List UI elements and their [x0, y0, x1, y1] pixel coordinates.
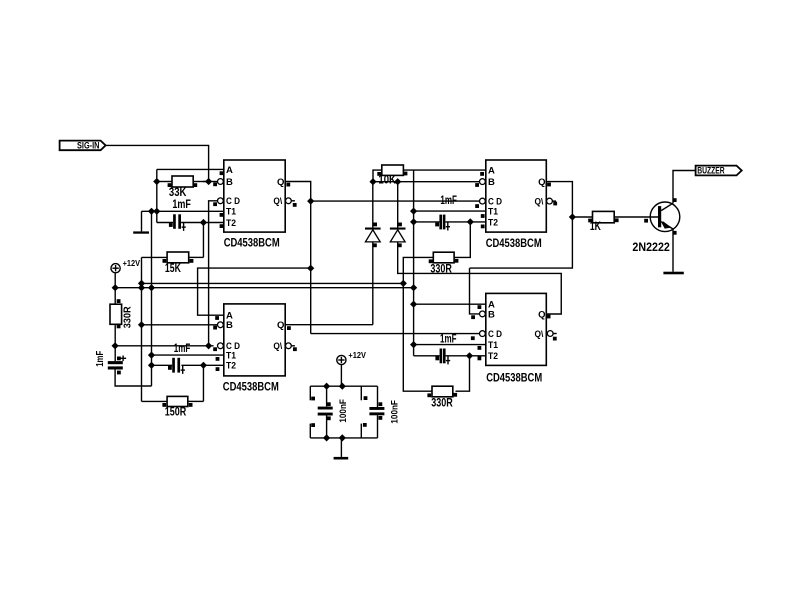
wire U2 Q down-around	[470, 182, 573, 269]
wire U2 A net	[403, 169, 485, 171]
svg-text:Q\: Q\	[535, 197, 544, 208]
wire 150R left lead	[142, 400, 168, 402]
junction SIG-IN/B/33K	[205, 178, 212, 185]
junction U3 B	[138, 321, 145, 328]
junction U3 T1	[148, 352, 155, 359]
junction H2 at +12V	[112, 284, 119, 291]
wire U1 B stub	[203, 181, 218, 183]
svg-text:Q: Q	[538, 177, 545, 188]
resistor R 33K	[168, 176, 198, 187]
wire D1 top lead	[372, 182, 374, 228]
junction CD riser at U3	[205, 342, 212, 349]
capacitor C2 1mF vertical	[108, 356, 126, 375]
capacitor C6 100nF	[318, 386, 333, 438]
wire 330R-left lower lead	[114, 324, 116, 361]
pin bubble U2 B	[480, 179, 486, 185]
op IC U2 CD4538BCM box	[486, 160, 547, 232]
wire U1Q to U2 CD	[311, 200, 483, 202]
svg-text:330R: 330R	[122, 306, 134, 328]
wire U1 A	[157, 168, 224, 170]
svg-text:T2: T2	[226, 361, 236, 372]
wire 1K to base	[614, 216, 658, 218]
wire U1 T2	[157, 222, 224, 224]
wire 150R riser	[202, 365, 204, 401]
power +12V mid	[337, 350, 366, 365]
wire 150R right lead	[188, 400, 204, 402]
label 330R top-right	[430, 263, 452, 275]
label 2N2222	[632, 242, 670, 254]
wire 15K riser	[202, 223, 204, 258]
wire U2 T1	[414, 210, 486, 212]
label 150R	[165, 407, 187, 419]
svg-text:B: B	[488, 177, 495, 188]
wire U1 T1	[142, 210, 224, 212]
wire H2	[115, 287, 413, 289]
junction T1 a	[148, 208, 155, 215]
pin bubble U2 CD	[480, 198, 486, 204]
wire V151 vertical	[151, 211, 153, 386]
junction U3 T2 a	[148, 362, 155, 369]
pin bubble U3 CD	[218, 343, 224, 349]
wire SIG-IN to node	[106, 145, 209, 181]
label C7 100nF	[390, 400, 401, 424]
pin bubble U3 Q\	[286, 343, 295, 349]
wire U3 B	[142, 324, 218, 326]
junction Q1/CD2	[307, 198, 314, 205]
wire U1 CD stub and riser	[209, 201, 218, 346]
label U4 CD4538BCM	[486, 372, 542, 384]
junction rail top C6	[323, 383, 330, 390]
svg-text:+12V: +12V	[348, 350, 366, 360]
diode D2	[390, 223, 406, 248]
label C5 1mF	[440, 333, 457, 345]
wire U4 A	[414, 303, 486, 305]
junction 33K left	[153, 178, 160, 185]
resistor R3 1K	[588, 211, 618, 222]
svg-text:1mF: 1mF	[440, 195, 457, 207]
svg-text:Q: Q	[277, 177, 284, 188]
wire 330R-tr left lead and Va	[403, 257, 433, 391]
pin bubble U4 Q\	[547, 331, 556, 337]
label C6 100nF	[338, 399, 349, 423]
svg-text:Q\: Q\	[273, 341, 282, 352]
resistor R 10K	[377, 165, 407, 176]
ground mid	[334, 457, 349, 460]
label 330R bottom-right	[431, 397, 453, 409]
label C3 1mF	[174, 343, 191, 355]
op IC U4 CD4538BCM box	[486, 293, 547, 365]
junction H2 b	[138, 284, 145, 291]
svg-text:BUZZER: BUZZER	[697, 166, 725, 177]
power +12V left	[111, 258, 140, 273]
pin bubble U1 CD	[218, 198, 224, 204]
junction H2 right	[410, 284, 417, 291]
svg-text:330R: 330R	[430, 263, 452, 275]
capacitor C4 1mF plates	[435, 215, 450, 231]
wire Vb vertical	[413, 170, 415, 356]
resistor R 330R top-right	[429, 252, 459, 263]
svg-text:CD4538BCM: CD4538BCM	[486, 238, 542, 250]
wire C2 bottom to V151	[115, 370, 151, 387]
wire collector to BUZZER	[673, 171, 696, 204]
junction T2/15K	[200, 219, 207, 226]
transistor Q5 2N2222	[644, 198, 680, 235]
junction U3 T2 b	[200, 362, 207, 369]
junction CD wire left	[112, 342, 119, 349]
output flag BUZZER	[696, 166, 742, 177]
junction Vb T1-2	[410, 208, 417, 215]
wire 330R-br riser	[456, 356, 470, 391]
pin squares U2	[475, 172, 557, 228]
svg-text:Q\: Q\	[273, 196, 282, 207]
svg-text:1mF: 1mF	[94, 350, 106, 366]
wire 1K left lead	[572, 216, 592, 218]
svg-text:A: A	[226, 165, 233, 176]
pin bubble U2 Q\	[547, 198, 556, 204]
junction Vb A4	[410, 301, 417, 308]
input flag SIG-IN	[60, 141, 106, 152]
junction H1 left	[138, 280, 145, 287]
svg-text:B: B	[226, 320, 233, 331]
label C1 1mF	[172, 199, 191, 211]
svg-text:33K: 33K	[169, 187, 187, 199]
wire D2 bottom to U4 Q	[398, 242, 562, 314]
wire U4 CD long	[311, 333, 479, 335]
wire mid ground stem	[340, 438, 342, 457]
svg-text:330R: 330R	[431, 397, 453, 409]
label 1K	[590, 221, 602, 233]
svg-text:1mF: 1mF	[172, 199, 191, 211]
svg-text:CD4538BCM: CD4538BCM	[223, 382, 279, 394]
svg-text:1mF: 1mF	[174, 343, 191, 355]
wire +12V mid stem	[340, 365, 342, 386]
resistor R 330R left vertical	[110, 299, 122, 328]
svg-text:+12V: +12V	[123, 258, 141, 268]
wire 33K right lead	[193, 181, 208, 183]
svg-text:A: A	[488, 166, 495, 177]
wire U3 T2	[152, 364, 224, 366]
wire U4 B riser	[470, 268, 480, 314]
svg-text:T2: T2	[488, 217, 498, 228]
label 330R left	[122, 306, 134, 328]
svg-text:2N2222: 2N2222	[632, 242, 670, 254]
ground at emitter	[663, 272, 683, 275]
wire 10K left corner	[373, 170, 382, 182]
label U2 CD4538BCM	[486, 238, 542, 250]
label 33K	[169, 187, 187, 199]
svg-text:SIG-IN: SIG-IN	[77, 141, 100, 152]
wire U2 B net	[373, 181, 480, 183]
svg-text:B: B	[226, 177, 233, 188]
label U3 CD4538BCM	[223, 382, 279, 394]
junction Wq2 end	[307, 265, 314, 272]
svg-text:CD4538BCM: CD4538BCM	[486, 372, 542, 384]
pin squares U3	[213, 316, 297, 371]
svg-text:Q: Q	[277, 320, 284, 331]
wire D1 bottom lead	[372, 242, 374, 325]
svg-text:150R: 150R	[165, 407, 187, 419]
wire 15K right lead	[189, 256, 204, 258]
wire U3 T1	[152, 354, 224, 356]
wire 15K left lead and riser	[142, 257, 168, 401]
label 10K	[378, 175, 396, 187]
svg-text:B: B	[488, 309, 495, 320]
junction B2/D1/10K	[369, 178, 376, 185]
junction H1 right	[400, 280, 407, 287]
junction rail bottom C6	[323, 434, 330, 441]
pin bubble U1 B	[218, 179, 224, 185]
svg-text:CD4538BCM: CD4538BCM	[224, 238, 280, 250]
op IC U3 CD4538BCM box	[224, 304, 285, 376]
resistor R 330R bottom-right	[427, 386, 457, 397]
capacitor C5 1mF plates	[435, 349, 450, 365]
svg-text:T1: T1	[488, 207, 499, 218]
junction T2-2/330R	[467, 218, 474, 225]
capacitor C7 100nF	[369, 386, 384, 438]
pin squares U1	[213, 171, 296, 228]
label 15K	[165, 263, 182, 275]
wire 33K left lead	[157, 181, 172, 183]
wire 100nF top rail	[310, 385, 377, 387]
label C2 1mF	[94, 350, 106, 366]
pin bubble U4 CD	[480, 331, 486, 337]
wire U4 T1	[414, 344, 486, 346]
wire 100nF bottom rail	[310, 437, 377, 439]
wire U3 CD net	[115, 345, 214, 347]
wire H1	[142, 282, 404, 284]
wire U2 T2	[414, 221, 486, 223]
svg-text:T1: T1	[226, 207, 237, 218]
label U1 CD4538BCM	[224, 238, 280, 250]
junction U4 T2/330R	[466, 352, 473, 359]
junction B2/D2	[394, 178, 401, 185]
label C4 1mF	[440, 195, 457, 207]
svg-text:Q: Q	[538, 309, 545, 320]
diode D1	[365, 223, 381, 248]
resistor R 150R	[162, 396, 192, 406]
wire emitter to ground	[672, 229, 674, 272]
svg-text:T1: T1	[488, 340, 499, 351]
wire U4 T2	[414, 355, 486, 357]
svg-text:10K: 10K	[378, 175, 396, 187]
wire U3Q to diode1	[285, 324, 373, 326]
svg-text:100nF: 100nF	[338, 399, 349, 423]
resistor R 15K	[163, 252, 194, 263]
pin bubble U3 B	[218, 322, 224, 328]
svg-text:T2: T2	[226, 218, 236, 229]
junction Vb T2-2	[410, 218, 417, 225]
svg-text:C D: C D	[488, 329, 502, 340]
wire C7 hooks	[361, 386, 367, 438]
junction Vb T1-4	[410, 341, 417, 348]
wire 330R-tr riser	[454, 222, 470, 258]
ground at U1 T1	[133, 211, 149, 233]
svg-text:100nF: 100nF	[390, 400, 401, 424]
junction Q2/1K	[569, 213, 576, 220]
svg-text:T2: T2	[488, 351, 498, 362]
junction H2 c	[148, 284, 155, 291]
junction T1 b	[153, 208, 160, 215]
wire U1 Q	[285, 182, 311, 334]
capacitor C1 1mF plates	[169, 214, 186, 231]
wire C6 hooks	[310, 386, 315, 438]
wire D2 top lead	[397, 182, 399, 228]
op IC U1 CD4538BCM box	[224, 160, 285, 232]
svg-text:1mF: 1mF	[440, 333, 457, 345]
svg-text:Q\: Q\	[535, 329, 544, 340]
junction rail bottom gnd	[339, 434, 346, 441]
svg-text:1K: 1K	[590, 221, 602, 233]
pin bubble U4 B	[480, 311, 486, 317]
wire A-to-T2 vertical	[156, 169, 158, 222]
wire U1Q/U3A net	[198, 268, 311, 315]
svg-text:15K: 15K	[165, 263, 182, 275]
capacitor C3 1mF plates	[168, 358, 185, 374]
pin bubble U1 Q\	[286, 198, 295, 204]
junction rail top +12V	[339, 383, 346, 390]
svg-text:C D: C D	[226, 196, 240, 207]
pin squares U4	[471, 305, 557, 360]
wire +12V stem to 330R	[114, 273, 116, 304]
